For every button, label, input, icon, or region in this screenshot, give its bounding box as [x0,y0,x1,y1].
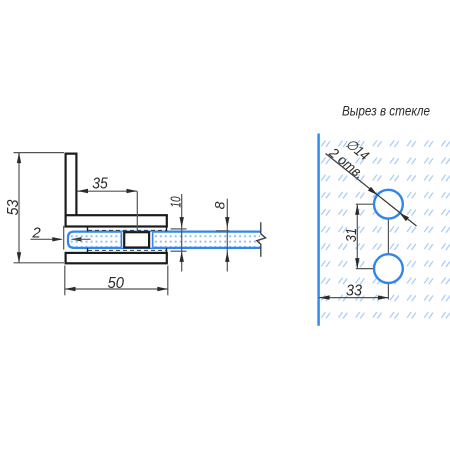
upper gasket insert (dashed) [88,227,167,232]
dim 50: dimension line with arrows [65,287,168,291]
svg-text:53: 53 [5,199,22,215]
svg-text:2: 2 [31,224,41,241]
glass panel hatch [320,134,450,325]
dim 10: extension segments [171,229,187,251]
center lines of holes [356,204,389,299]
dim 35: dimension line with arrows [78,189,138,232]
dim 31: dimension line with arrows [355,204,359,268]
leader line for hole diameter [326,154,417,227]
svg-text:8: 8 [212,201,228,209]
dim 53: dimension line with arrows [17,153,21,263]
svg-text:10: 10 [167,196,184,208]
svg-text:35: 35 [92,176,108,193]
bracket top plate [66,215,167,226]
dim 2: leader and arrows [31,226,91,250]
svg-text:50: 50 [108,275,125,292]
dim 33: dimension line with arrows [319,295,389,299]
dim 10: dimension line with outside arrows [180,194,184,272]
clamp center block (section through spacer) [124,232,149,247]
svg-text:31: 31 [343,228,360,242]
hole 1 (top) [374,190,403,219]
glass hole edges (blue stubs at clamp block) [121,232,152,248]
glass pane with gasket (blue rounded band) [68,232,261,248]
lower gasket insert (dashed) [88,248,167,252]
dim 8: dimension line with outside arrows [225,199,229,272]
bracket bottom plate [66,253,167,263]
dim 53: extension lines [14,153,65,263]
dim 8: extension segments [216,230,230,232]
dim 50: extension lines [65,266,168,296]
glass break symbol [257,222,266,257]
hole 2 (bottom) [374,254,403,283]
svg-text:Вырез в стекле: Вырез в стекле [342,102,430,118]
glass panel edge [317,134,319,326]
bracket vertical bar [66,154,77,216]
svg-text:33: 33 [346,282,362,299]
